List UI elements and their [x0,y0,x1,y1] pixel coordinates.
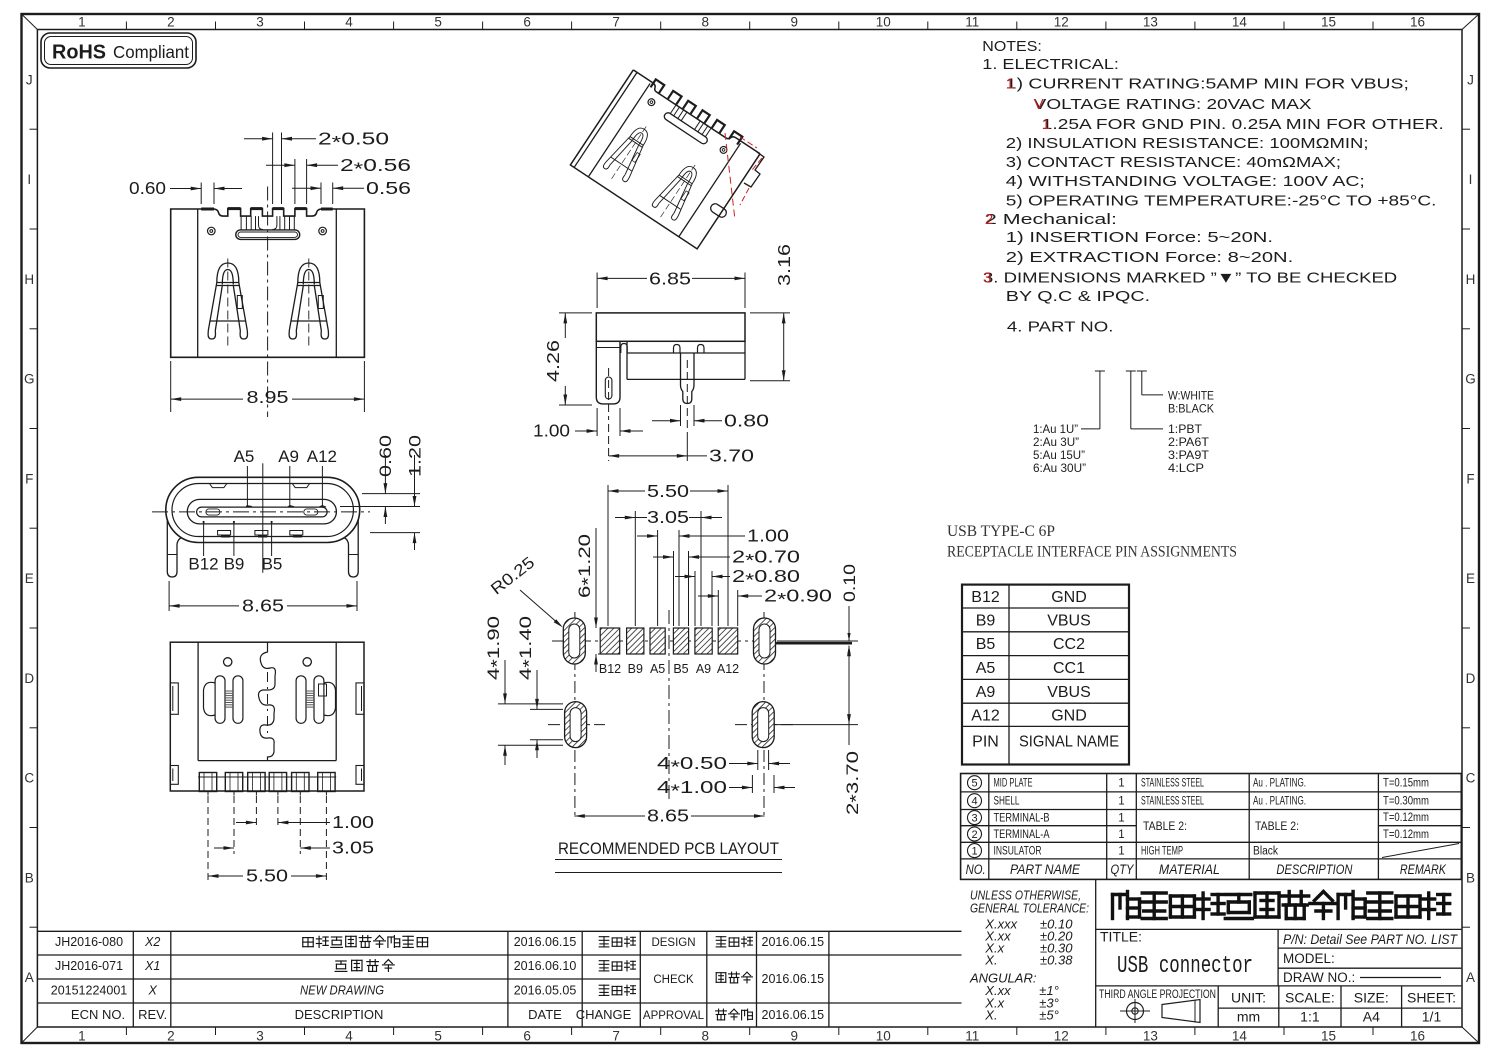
svg-text:B: B [25,870,34,885]
svg-text:Au . PLATING.: Au . PLATING. [1253,778,1306,790]
dimension 0.56 (front view) [292,178,411,204]
svg-text:B12: B12 [971,589,1000,606]
svg-text:TERMINAL-A: TERMINAL-A [994,829,1050,841]
svg-text:B:BLACK: B:BLACK [1168,402,1214,416]
svg-text:X1: X1 [144,959,160,973]
dimension 0.80 (side view) [652,405,769,431]
dimension 1.00 (pcb) [637,526,789,627]
svg-text:CHECK: CHECK [653,974,694,986]
svg-text:B9: B9 [976,612,996,629]
svg-text:13: 13 [1143,15,1158,30]
dimension 2*0.50 (front view) [244,129,389,205]
svg-text:2) EXTRACTION Force: 8~20N.: 2) EXTRACTION Force: 8~20N. [1006,249,1293,266]
svg-text:NOTES:: NOTES: [982,38,1042,55]
svg-text:3:PA9T: 3:PA9T [1168,448,1210,462]
svg-text:2016.06.15: 2016.06.15 [762,935,825,949]
svg-text:1: 1 [78,1029,86,1044]
svg-text:±0.38: ±0.38 [1040,953,1073,968]
svg-text:12: 12 [1054,1029,1069,1044]
svg-text:C: C [24,771,34,786]
svg-text:J: J [26,72,33,87]
company name 浙江虹穗精密电子有限公司 [1113,892,1450,919]
svg-text:7: 7 [612,1029,620,1044]
dimension 8.95 (front view) [171,361,365,412]
svg-text:11: 11 [965,1029,979,1044]
dimension 0.10 (pcb) [841,564,859,660]
svg-text:ECN NO.: ECN NO. [71,1007,125,1022]
svg-text:B9: B9 [628,662,643,676]
svg-text:A9: A9 [278,447,299,466]
svg-text:B5: B5 [262,555,283,574]
dimension 6.85 (side view) [597,269,745,309]
svg-text:CC1: CC1 [1053,660,1085,677]
svg-text:8: 8 [701,15,709,30]
svg-text:1.00: 1.00 [533,421,570,441]
svg-text:5.50: 5.50 [246,866,288,886]
svg-text:Black: Black [1253,846,1278,858]
svg-text:Au . PLATING.: Au . PLATING. [1253,796,1306,808]
svg-text:5: 5 [434,1029,442,1044]
RoHS Compliant label [41,33,196,68]
svg-text:P/N: Detail See PART NO. LIST: P/N: Detail See PART NO. LIST [1283,931,1458,947]
svg-text:3: 3 [256,1029,264,1044]
svg-text:2: 2 [985,211,993,228]
svg-text:2016.06.15: 2016.06.15 [762,1008,825,1022]
dimension 4*1.40 (pcb) [517,616,563,758]
svg-text:16: 16 [1410,1029,1425,1044]
svg-text:3.16: 3.16 [774,244,794,286]
svg-text:1. ELECTRICAL:: 1. ELECTRICAL: [982,56,1119,73]
svg-text:1) CURRENT RATING:5AMP MIN FOR: 1) CURRENT RATING:5AMP MIN FOR VBUS; [1006,76,1409,93]
dimension 2*3.70 (pcb) [775,641,866,815]
svg-text:8.65: 8.65 [242,596,284,616]
svg-text:5.50: 5.50 [647,481,689,501]
svg-text:0.10: 0.10 [841,564,859,602]
svg-text:D: D [24,671,34,686]
svg-text:CC2: CC2 [1053,636,1085,653]
svg-text:3: 3 [256,15,264,30]
svg-text:14: 14 [1232,15,1248,30]
svg-text:10: 10 [876,1029,891,1044]
dimension 1.20 (pill view) [370,435,425,550]
svg-text:D: D [1466,671,1476,686]
svg-text:4: 4 [345,15,353,30]
svg-text:1:Au 1U”: 1:Au 1U” [1033,422,1078,436]
third angle projection symbol [1099,989,1216,1023]
part number / model / draw no fields [1283,931,1458,985]
svg-text:UNIT:: UNIT: [1231,990,1266,1006]
part number code tree [1033,371,1214,475]
svg-text:1:PBT: 1:PBT [1168,422,1203,436]
svg-text:20151224001: 20151224001 [51,984,128,998]
svg-text:6: 6 [523,15,531,30]
svg-text:2: 2 [971,829,977,841]
svg-text:16: 16 [1410,15,1425,30]
dimension 4.26 (side view) [543,313,592,405]
svg-text:C: C [1466,771,1476,786]
svg-text:0.80: 0.80 [724,411,769,431]
svg-text:1: 1 [1118,796,1124,808]
svg-text:4. PART NO.: 4. PART NO. [1007,319,1114,336]
dimension 0.60 (front view) [129,178,242,204]
svg-text:CHANGE: CHANGE [576,1007,632,1022]
svg-text:2016.05.05: 2016.05.05 [514,984,577,998]
svg-text:X2: X2 [144,935,160,949]
dimension 2*0.70 (pcb) [653,547,800,627]
svg-text:13: 13 [1143,1029,1158,1044]
svg-text:HIGH TEMP: HIGH TEMP [1141,846,1183,858]
dimension 8.65 (pill view) [169,581,357,616]
svg-text:DESCRIPTION: DESCRIPTION [1276,861,1353,877]
svg-text:4: 4 [971,796,977,808]
svg-text:2016.06.10: 2016.06.10 [514,959,577,973]
dimension 3.05 (bottom view) [214,796,374,858]
dimension 5.50 (bottom view) [208,796,326,886]
dimension R0.25 (pcb) [488,554,563,628]
svg-text:F: F [25,471,33,486]
svg-text:3.05: 3.05 [332,838,374,858]
svg-text:1.25A FOR GND PIN. 0.25A MIN F: 1.25A FOR GND PIN. 0.25A MIN FOR OTHER. [1042,116,1444,133]
dimension 0.60 (pill view) [340,435,420,524]
svg-text:G: G [24,372,35,387]
svg-text:T=0.15mm: T=0.15mm [1383,776,1429,790]
svg-text:8.95: 8.95 [247,387,289,407]
svg-text:DRAW NO.:: DRAW NO.: [1283,970,1355,985]
general tolerance block [969,888,1089,1023]
dimension 5.50 (pcb) [608,481,728,626]
svg-text:VBUS: VBUS [1047,684,1091,701]
svg-text:USB connector: USB connector [1117,953,1253,980]
svg-text:5) OPERATING TEMPERATURE:-25°C: 5) OPERATING TEMPERATURE:-25°C TO +85°C. [1006,193,1437,210]
svg-text:6.85: 6.85 [649,269,691,289]
svg-text:B12: B12 [188,555,218,574]
dimension 1.00 (side view) [533,408,643,441]
svg-text:1.00: 1.00 [332,812,374,832]
svg-text:A: A [25,970,34,985]
svg-text:B5: B5 [673,662,688,676]
recommended PCB layout view [548,610,852,818]
svg-text:9: 9 [790,15,798,30]
svg-text:USB TYPE-C 6P: USB TYPE-C 6P [947,523,1055,540]
recommended pcb layout caption [555,839,782,873]
svg-text:1: 1 [1006,76,1014,93]
svg-text:1/1: 1/1 [1422,1009,1442,1025]
svg-text:X.: X. [984,1008,997,1023]
svg-text:2 Mechanical:: 2 Mechanical: [985,211,1117,228]
red hidden edge lines (iso view) [725,133,762,220]
notes text block [982,38,1444,336]
svg-text:15: 15 [1321,15,1336,30]
dimension 6*1.20 (pcb) [576,528,604,672]
svg-text:3) CONTACT RESISTANCE: 40mΩMAX: 3) CONTACT RESISTANCE: 40mΩMAX; [1006,154,1341,171]
svg-text:A9: A9 [976,684,996,701]
svg-text:APPROVAL: APPROVAL [643,1010,705,1022]
svg-text:TERMINAL-B: TERMINAL-B [994,813,1050,825]
svg-text:4:LCP: 4:LCP [1168,461,1204,475]
svg-text:1: 1 [1042,116,1050,133]
title text [1100,929,1253,981]
svg-text:RECOMMENDED PCB LAYOUT: RECOMMENDED PCB LAYOUT [558,839,779,858]
svg-text:PIN: PIN [972,734,999,751]
svg-text:REMARK: REMARK [1400,861,1447,877]
svg-text:X: X [148,984,158,998]
svg-text:STAINLESS STEEL: STAINLESS STEEL [1141,778,1204,790]
svg-text:H: H [24,272,34,287]
svg-text:1.00: 1.00 [747,526,789,546]
svg-text:2) INSULATION RESISTANCE: 100M: 2) INSULATION RESISTANCE: 100MΩMIN; [1006,135,1369,152]
svg-text:B5: B5 [976,636,996,653]
svg-text:A12: A12 [717,662,739,676]
svg-text:JH2016-071: JH2016-071 [55,959,123,973]
svg-text:TITLE:: TITLE: [1100,929,1142,945]
svg-text:2: 2 [167,1029,175,1044]
bottom view of connector [170,642,364,795]
svg-text:GND: GND [1051,707,1087,724]
svg-text:mm: mm [1237,1009,1260,1025]
parts list table [961,774,1462,880]
svg-text:0.56: 0.56 [366,178,411,198]
svg-text:SHELL: SHELL [994,796,1020,808]
title block [1096,879,1462,1027]
svg-text:T=0.12mm: T=0.12mm [1383,827,1429,841]
svg-text:9: 9 [790,1029,798,1044]
receptacle face view (pill) [152,463,370,577]
svg-text:GENERAL TOLERANCE:: GENERAL TOLERANCE: [970,901,1089,916]
svg-text:5:Au 15U”: 5:Au 15U” [1033,448,1085,462]
svg-text:B12: B12 [599,662,621,676]
svg-text:1: 1 [78,15,86,30]
svg-text:NEW DRAWING: NEW DRAWING [300,984,384,998]
svg-text:MODEL:: MODEL: [1283,951,1335,966]
svg-text:VBUS: VBUS [1047,612,1091,629]
dimension 3.05 (pcb) [615,507,722,626]
pin labels B12 B9 B5 (pill view) [188,521,282,574]
svg-text:TABLE 2:: TABLE 2: [1255,819,1299,833]
svg-text:DESCRIPTION: DESCRIPTION [295,1007,384,1022]
isometric view of connector [570,66,762,249]
front view of connector (top-left) [171,187,365,418]
svg-text:B: B [1466,870,1475,885]
dimension 8.65 (pcb) [574,806,764,826]
svg-text:1) INSERTION Force: 5~20N.: 1) INSERTION Force: 5~20N. [1006,229,1273,246]
svg-text:A12: A12 [971,707,1000,724]
svg-text:4.26: 4.26 [543,340,563,382]
svg-text:TABLE 2:: TABLE 2: [1143,819,1187,833]
svg-text:10: 10 [876,15,891,30]
svg-text:F: F [1466,471,1474,486]
svg-text:STAINLESS STEEL: STAINLESS STEEL [1141,796,1204,808]
svg-text:3: 3 [983,270,991,287]
svg-text:15: 15 [1321,1029,1336,1044]
svg-text:RECEPTACLE INTERFACE PIN ASSIG: RECEPTACLE INTERFACE PIN ASSIGNMENTS [947,544,1237,561]
svg-text:MID PLATE: MID PLATE [994,778,1033,790]
svg-text:A12: A12 [307,447,337,466]
svg-text:2:Au 3U”: 2:Au 3U” [1033,435,1079,449]
svg-text:5: 5 [971,778,977,790]
svg-text:JH2016-080: JH2016-080 [55,935,123,949]
svg-text:2: 2 [167,15,175,30]
svg-text:1: 1 [1118,813,1124,825]
svg-text:5: 5 [434,15,442,30]
pin assignments heading [947,523,1237,561]
svg-text:INSULATOR: INSULATOR [994,846,1042,858]
svg-text:0.60: 0.60 [129,178,166,198]
dimension 3.16 (side view) [750,244,794,381]
svg-text:8.65: 8.65 [647,806,689,826]
svg-text:11: 11 [965,15,979,30]
svg-text:GND: GND [1051,589,1087,606]
svg-text:X.: X. [984,953,997,968]
svg-text:14: 14 [1232,1029,1248,1044]
svg-text:MATERIAL: MATERIAL [1159,861,1220,877]
dimension 2*0.90 (pcb) [698,586,832,627]
svg-text:E: E [1466,571,1475,586]
svg-text:3: 3 [971,813,977,825]
svg-text:3.05: 3.05 [647,507,689,527]
svg-text:I: I [27,172,31,187]
svg-text:4) WITHSTANDING VOLTAGE: 100V: 4) WITHSTANDING VOLTAGE: 100V AC; [1006,173,1365,190]
pin assignment table [962,585,1129,765]
svg-text:6: 6 [523,1029,531,1044]
svg-text:B9: B9 [224,555,245,574]
svg-text:NO.: NO. [966,861,986,877]
svg-text:1.20: 1.20 [406,435,425,477]
svg-text:DESIGN: DESIGN [651,937,695,949]
svg-text:SIGNAL NAME: SIGNAL NAME [1019,734,1119,751]
svg-text:7: 7 [612,15,620,30]
svg-text:E: E [25,571,34,586]
svg-text:V: V [1034,96,1044,113]
svg-text:SIZE:: SIZE: [1354,990,1389,1006]
svg-text:2:PA6T: 2:PA6T [1168,435,1210,449]
svg-text:0.60: 0.60 [376,435,395,477]
svg-text:A9: A9 [696,662,711,676]
svg-text:PART NAME: PART NAME [1010,861,1081,877]
svg-text:12: 12 [1054,15,1069,30]
svg-text:A5: A5 [976,660,996,677]
dimension 2*0.80 (pcb) [675,566,800,626]
svg-text:I: I [1469,172,1473,187]
dimension 1.00 (bottom view) [236,796,374,832]
svg-text:3. DIMENSIONS MARKED ”▼” TO BE: 3. DIMENSIONS MARKED ”▼” TO BE CHECKED [983,270,1397,287]
svg-text:QTY: QTY [1111,861,1135,877]
revision history table [37,931,961,1027]
svg-text:1: 1 [1118,778,1124,790]
svg-text:SHEET:: SHEET: [1407,990,1456,1006]
svg-text:1: 1 [971,846,977,858]
svg-text:SCALE:: SCALE: [1285,990,1335,1006]
svg-text:DATE: DATE [528,1007,562,1022]
svg-text:8: 8 [701,1029,709,1044]
svg-text:±5°: ±5° [1039,1008,1059,1023]
dimension 2*0.56 (front view) [266,155,411,204]
svg-text:2016.06.15: 2016.06.15 [514,935,577,949]
dimension 4*0.50 (pcb) [657,750,790,777]
svg-text:VOLTAGE RATING: 20VAC MAX: VOLTAGE RATING: 20VAC MAX [1034,96,1312,113]
unit scale size sheet fields [1231,990,1456,1025]
svg-text:A5: A5 [234,447,255,466]
svg-text:3.70: 3.70 [709,446,754,466]
svg-text:4: 4 [345,1029,353,1044]
svg-text:T=0.12mm: T=0.12mm [1383,810,1429,824]
dimension 4*1.00 (pcb) [657,775,795,801]
svg-text:REV.: REV. [138,1007,167,1022]
svg-text:W:WHITE: W:WHITE [1168,389,1214,403]
side view of connector [596,313,745,430]
svg-text:6:Au 30U”: 6:Au 30U” [1033,461,1086,475]
svg-text:1: 1 [1118,829,1124,841]
svg-text:A5: A5 [650,662,665,676]
svg-text:BY Q.C & IPQC.: BY Q.C & IPQC. [1006,288,1150,305]
pin labels A5 A9 A12 (pill view) [234,447,337,507]
svg-text:T=0.30mm: T=0.30mm [1383,794,1429,808]
svg-text:RoHS: RoHS [52,42,106,64]
dimension 4*1.90 (pcb) [485,616,563,765]
svg-text:A: A [1466,970,1475,985]
svg-text:1: 1 [1118,846,1124,858]
svg-text:H: H [1466,272,1476,287]
svg-text:G: G [1465,372,1476,387]
dimension 3.70 (side view) [609,424,755,466]
svg-text:2016.06.15: 2016.06.15 [762,972,825,986]
svg-text:A4: A4 [1363,1009,1380,1025]
svg-text:1:1: 1:1 [1300,1009,1320,1025]
svg-text:J: J [1467,72,1474,87]
svg-text:Compliant: Compliant [113,42,189,62]
